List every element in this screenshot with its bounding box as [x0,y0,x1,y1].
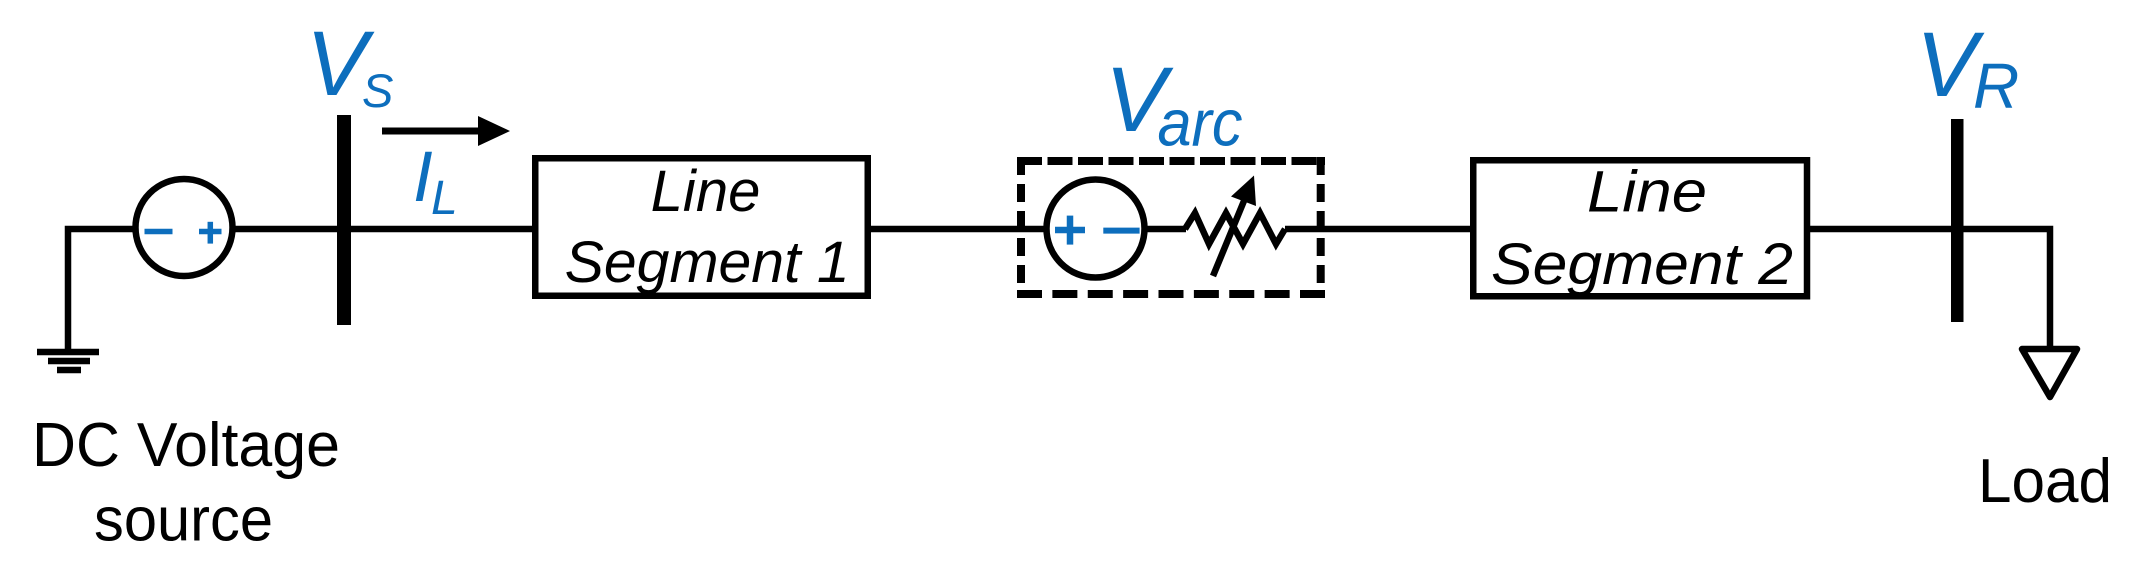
arc source minus sign [1103,228,1139,234]
variable resistor zigzag [1185,213,1285,244]
svg-text:Line: Line [651,159,761,224]
variable resistor arrow [1213,196,1246,276]
wire: source to Line Segment 1 [232,226,535,233]
svg-text:DC Voltage: DC Voltage [32,411,340,480]
node bus Vr [1951,119,1964,322]
wire: resistor to Line Segment 2 [1285,226,1476,233]
svg-text:R: R [1973,50,2019,122]
svg-text:I: I [413,138,433,217]
wire: ground riser and lead to source [68,229,136,352]
svg-text:L: L [431,172,458,225]
svg-text:Segment 1: Segment 1 [565,230,850,295]
wire: Line Segment 1 to arc source [868,226,1050,233]
svg-text:Segment 2: Segment 2 [1491,232,1793,297]
load arrow triangle [2022,349,2077,397]
current arrow [382,128,482,135]
svg-text:source: source [94,486,273,555]
wire: arc source to resistor [1144,226,1186,233]
ground [37,352,99,370]
wire: Line Segment 2 to load [1807,229,2050,348]
svg-text:S: S [362,64,393,117]
Line Segment 1 box [535,158,868,296]
arc model dashed box [1017,157,1325,298]
svg-text:Load: Load [1978,447,2112,516]
arc source plus sign [1055,216,1085,245]
svg-text:arc: arc [1158,86,1243,160]
source minus sign [145,229,173,235]
node bus Vs [337,115,351,325]
source plus sign [199,222,222,244]
DC voltage source circle [136,179,233,276]
arc voltage source circle [1047,180,1145,278]
svg-text:Line: Line [1587,160,1707,225]
Line Segment 2 box [1473,160,1807,296]
